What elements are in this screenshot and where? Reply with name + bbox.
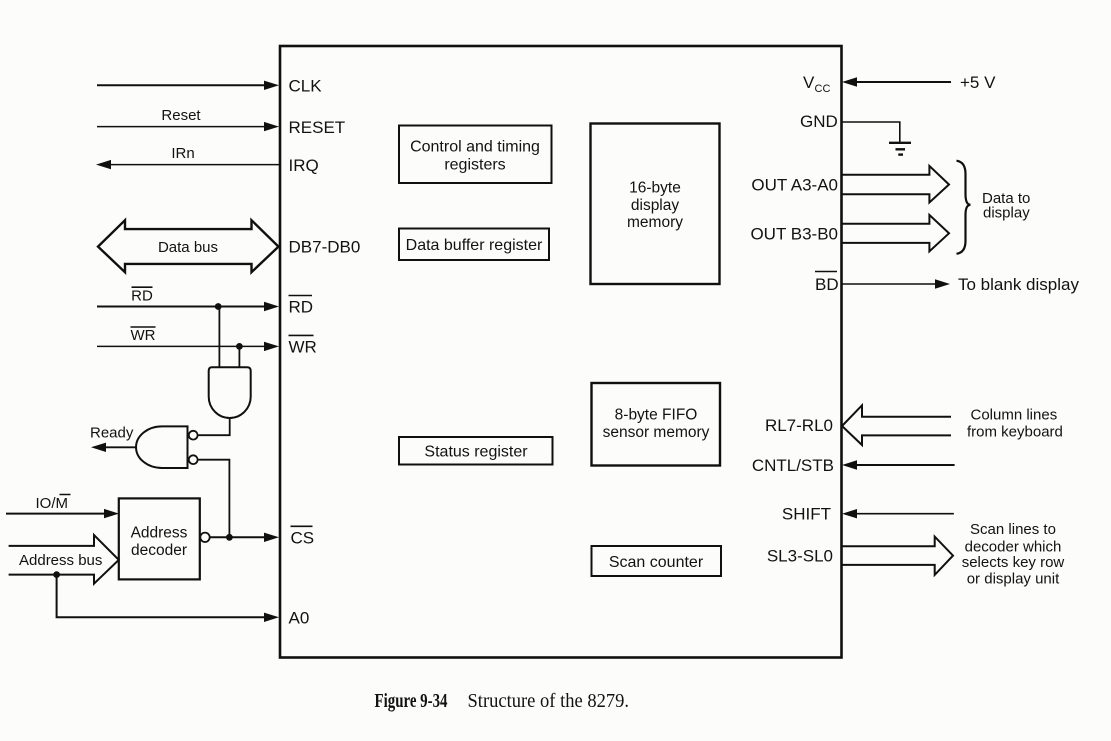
svg-text:OUT B3-B0: OUT B3-B0 [750, 224, 838, 243]
wire A0 from address bus junction [57, 575, 310, 628]
svg-text:Reset: Reset [161, 107, 201, 124]
AND gate (points down) [209, 367, 251, 418]
svg-text:from keyboard: from keyboard [967, 424, 1063, 441]
wire RD with overlined RD label [97, 287, 313, 317]
svg-text:IRn: IRn [171, 145, 194, 162]
block: Scan counter [592, 546, 722, 576]
svg-text:CC: CC [815, 83, 831, 95]
wire RESET with Reset label [97, 107, 345, 137]
bus arrow OUT A3-A0 [751, 166, 949, 203]
wire NAND bottom bubble to CS junction [198, 460, 230, 538]
NAND gate (points left) [136, 426, 198, 468]
svg-text:Column lines: Column lines [971, 406, 1058, 423]
svg-text:CS: CS [291, 529, 315, 548]
bus arrow Data bus (double headed) [98, 220, 360, 272]
8279 chip outline [280, 46, 842, 658]
svg-text:selects key row: selects key row [962, 554, 1065, 571]
svg-text:A0: A0 [289, 609, 310, 628]
svg-text:16-byte: 16-byte [629, 180, 681, 197]
brace for data to display [957, 161, 971, 254]
junction dot on RD [215, 303, 222, 310]
svg-text:SHIFT: SHIFT [782, 505, 831, 524]
svg-text:CLK: CLK [289, 77, 323, 96]
svg-text:IO/M: IO/M [36, 495, 69, 512]
svg-text:+5 V: +5 V [960, 73, 996, 92]
wire GND to ground [800, 112, 911, 154]
svg-text:Data buffer register: Data buffer register [406, 237, 543, 254]
svg-text:Scan counter: Scan counter [609, 554, 704, 571]
wire AND output to NAND top bubble [198, 418, 230, 435]
junction dot on Address bus lower line [53, 571, 60, 578]
svg-text:Data bus: Data bus [158, 239, 218, 256]
svg-text:registers: registers [444, 157, 505, 174]
Ready output arrow [90, 425, 136, 453]
svg-text:To blank display: To blank display [958, 275, 1079, 294]
block: 8-byte FIFO sensor memory [592, 383, 721, 466]
block: Status register [399, 437, 553, 465]
NAND bubble top [189, 431, 198, 440]
wire BD to blank display [815, 272, 1079, 295]
svg-text:WR: WR [289, 338, 317, 357]
wire CNTL/STB [752, 456, 955, 475]
svg-text:Address bus: Address bus [19, 552, 102, 569]
wire Vcc +5V [803, 73, 996, 95]
svg-text:RD: RD [289, 298, 314, 317]
wire IRQ with IRn label [96, 145, 319, 175]
svg-text:RL7-RL0: RL7-RL0 [765, 416, 833, 435]
wire from WR junction to AND gate input [238, 346, 240, 367]
svg-text:RESET: RESET [289, 118, 346, 137]
wire CLK [97, 77, 322, 96]
svg-text:IRQ: IRQ [289, 156, 319, 175]
block: Data buffer register [399, 229, 549, 261]
svg-text:DB7-DB0: DB7-DB0 [289, 237, 361, 256]
svg-text:GND: GND [800, 112, 838, 131]
ground symbol [889, 142, 911, 144]
block: Control and timing registers [399, 126, 552, 184]
svg-text:RD: RD [131, 287, 153, 304]
svg-text:display: display [631, 197, 679, 214]
bus arrow SL3-SL0 (out of chip) [767, 521, 1065, 588]
bus arrow OUT B3-B0 [750, 215, 949, 251]
svg-text:display: display [983, 205, 1030, 222]
bus arrow Address bus [9, 535, 119, 584]
svg-text:WR: WR [131, 327, 156, 344]
svg-text:sensor memory: sensor memory [603, 424, 710, 441]
svg-text:Ready: Ready [90, 425, 134, 442]
junction dot on WR [236, 343, 243, 350]
junction dot on CS wire [226, 534, 233, 541]
svg-text:Figure 9-34Structure of the 82: Figure 9-34Structure of the 8279. [375, 690, 630, 712]
wire from RD junction to AND gate input [218, 307, 220, 368]
svg-text:SL3-SL0: SL3-SL0 [767, 547, 833, 566]
svg-text:V: V [803, 73, 815, 92]
svg-text:memory: memory [627, 214, 683, 231]
svg-text:Scan lines to: Scan lines to [970, 521, 1056, 538]
wire IO/M with overlined M label [6, 495, 119, 519]
Address decoder box [119, 498, 210, 579]
wire SHIFT [782, 505, 954, 524]
decoder output bubble [200, 533, 209, 542]
svg-text:or display unit: or display unit [967, 571, 1060, 588]
svg-text:Address: Address [131, 525, 188, 542]
svg-text:Control and timing: Control and timing [410, 139, 540, 156]
NAND bubble bottom [189, 455, 198, 464]
svg-text:OUT A3-A0: OUT A3-A0 [751, 176, 838, 195]
wire CS from decoder bubble to chip [210, 526, 314, 547]
svg-text:CNTL/STB: CNTL/STB [752, 456, 834, 475]
svg-text:Status register: Status register [424, 444, 528, 461]
bus arrow RL7-RL0 (into chip) [765, 405, 1063, 445]
svg-text:decoder which: decoder which [965, 538, 1062, 555]
svg-text:8-byte FIFO: 8-byte FIFO [615, 407, 698, 424]
block: 16-byte display memory [591, 124, 720, 285]
wire WR with overlined WR label [97, 327, 317, 357]
svg-text:decoder: decoder [131, 542, 187, 559]
svg-text:BD: BD [815, 275, 839, 294]
